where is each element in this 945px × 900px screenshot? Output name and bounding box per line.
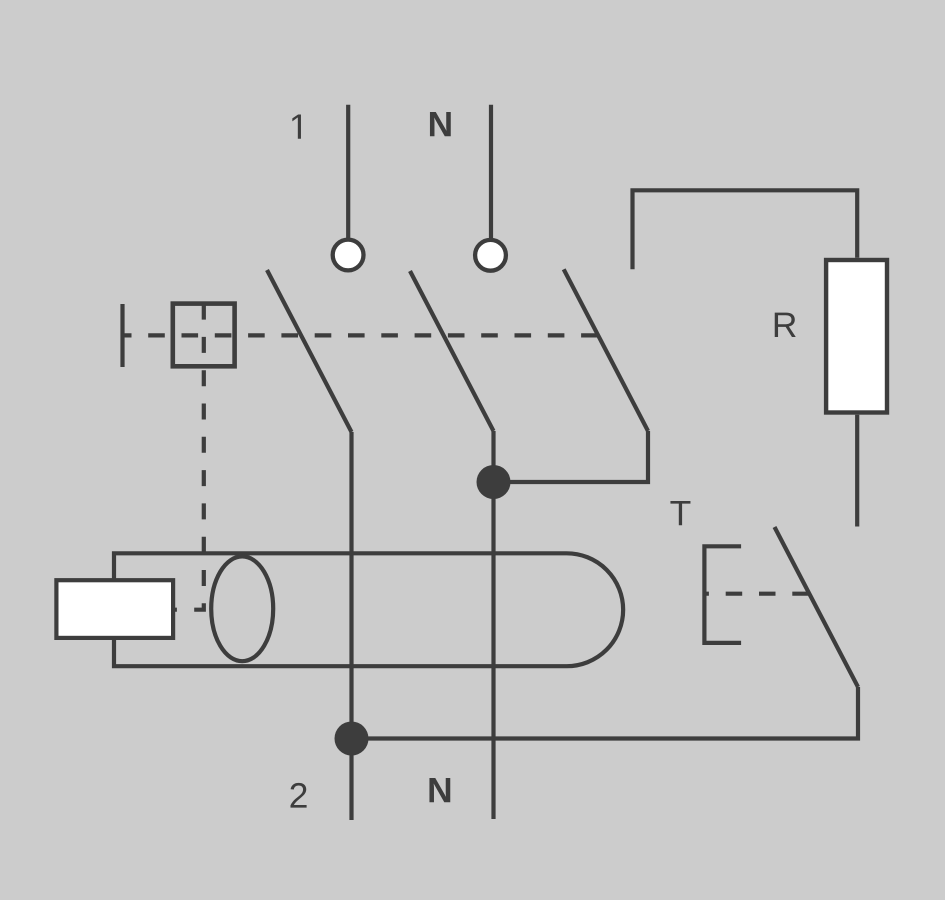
junction dot on N at test wire <box>477 465 511 499</box>
mechanism anchor tick <box>120 304 124 367</box>
junction dot on pole1 at test return <box>335 722 369 756</box>
test button bracket <box>704 546 741 643</box>
trip coil (relay) body <box>56 580 173 638</box>
dashed link test button to blade T <box>704 592 808 596</box>
wire test return (down and across to node on pole1) <box>352 687 859 739</box>
label N (bottom) <box>429 778 450 802</box>
wire test-circuit fixed contact / loop to resistor top <box>633 190 858 269</box>
switch blade S1 (pole 1) <box>267 270 352 432</box>
toroid core (current transformer body) <box>114 553 623 666</box>
dashed mechanical trip linkage (horizontal) <box>123 333 599 337</box>
label T <box>670 501 690 525</box>
wire pole1 output (through toroid to bottom) <box>349 432 353 820</box>
wire from blade S3 hinge to node on N <box>494 431 649 482</box>
wire neutral input (top line N) <box>489 105 493 239</box>
dashed link square box to trip coil <box>175 304 204 610</box>
label 1 <box>292 114 301 138</box>
wire resistor bottom to test switch contact <box>855 415 859 527</box>
terminal circle pole1 <box>333 240 364 271</box>
trip mechanism square box <box>173 304 235 367</box>
wire pole1 input (top line 1) <box>346 105 350 238</box>
label 2 <box>290 783 306 808</box>
test switch blade T <box>775 527 859 687</box>
label R <box>775 313 796 337</box>
toroid end ellipse <box>211 556 273 661</box>
terminal circle N <box>475 240 506 271</box>
resistor R body <box>826 260 887 413</box>
switch blade S3 (test circuit pole) <box>564 269 648 431</box>
switch blade S2 (pole N) <box>410 271 494 431</box>
label N (top) <box>430 112 451 136</box>
wire N output (through toroid to bottom) <box>491 431 495 819</box>
